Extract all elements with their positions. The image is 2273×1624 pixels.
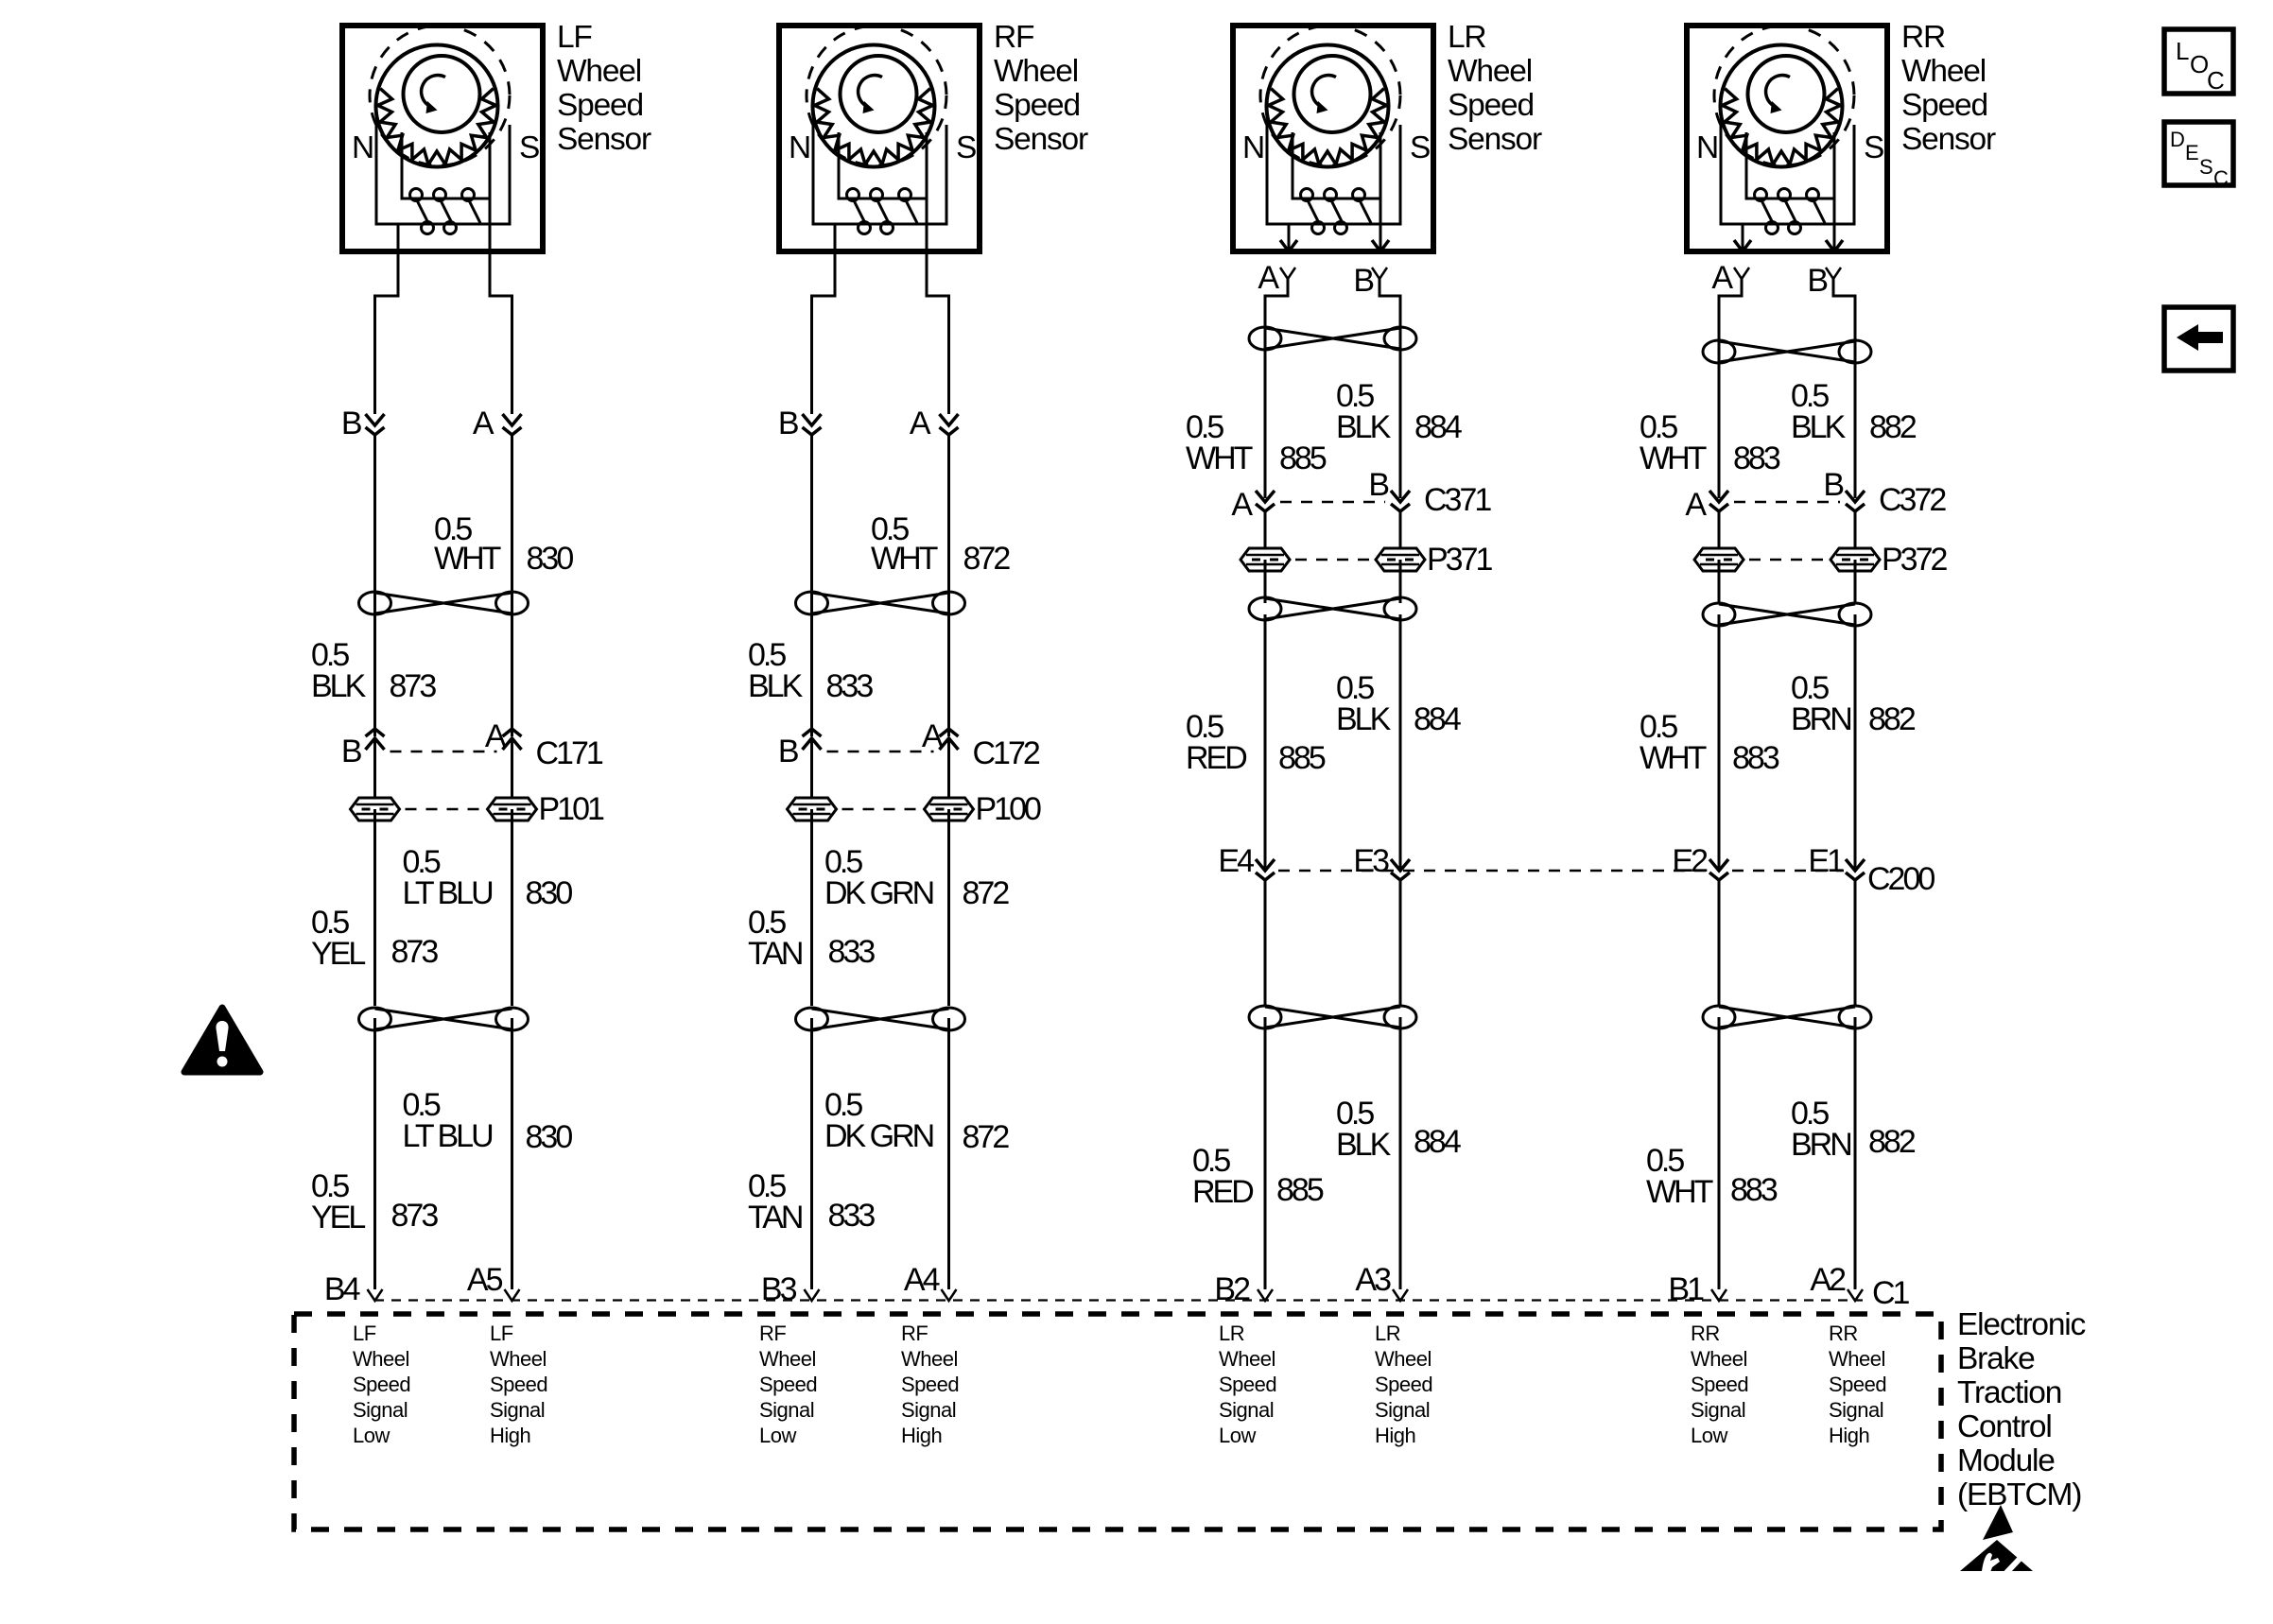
svg-text:Traction: Traction [1957, 1375, 2061, 1410]
label wire RR left mid: 0.5 WHT 883 [1640, 709, 1779, 776]
svg-text:884: 884 [1414, 409, 1462, 445]
wire RR right from sensor [1833, 279, 1855, 498]
svg-text:P101: P101 [539, 791, 604, 827]
terminal A of LR sensor [1258, 260, 1295, 296]
connector C172 [778, 718, 1040, 771]
wire LF high to module [511, 1018, 513, 1289]
wire RR left below C200 [1718, 880, 1721, 1006]
label wire LR low: 0.5 WHT 885 [1186, 409, 1327, 476]
svg-text:LT BLU: LT BLU [403, 875, 493, 911]
wire LR right below P371 [1399, 560, 1402, 603]
node LR Wheel Speed Signal Low [1219, 1322, 1276, 1447]
wire RR right below P372 [1854, 560, 1857, 603]
svg-text:S: S [956, 130, 976, 165]
svg-text:C172: C172 [973, 735, 1040, 771]
wire LR left below C371 [1264, 511, 1267, 548]
connector P100 [788, 791, 1041, 827]
svg-text:Signal: Signal [1375, 1398, 1430, 1422]
svg-text:A: A [473, 406, 495, 441]
label wire RF low lower: 0.5 TAN 833 [748, 1168, 875, 1235]
wire RR right below C372 [1854, 511, 1857, 548]
svg-text:RF: RF [901, 1322, 928, 1345]
connector C371 [1231, 467, 1491, 523]
label wire LF high: 0.5 WHT 830 [434, 511, 573, 577]
label wire LF high lower: 0.5 LT BLU 830 [403, 1087, 573, 1155]
svg-text:883: 883 [1733, 441, 1780, 476]
svg-text:LR: LR [1219, 1322, 1244, 1345]
svg-text:A: A [922, 718, 944, 754]
terminal B of RR sensor [1807, 263, 1841, 299]
terminal A of RF sensor [910, 406, 959, 441]
wire RR left from sensor [1719, 279, 1742, 498]
wire LR right from sensor [1379, 279, 1400, 498]
svg-text:A: A [910, 406, 931, 441]
svg-text:YEL: YEL [311, 936, 365, 972]
svg-text:B: B [778, 734, 798, 769]
twisted pair RR middle [1703, 603, 1871, 626]
svg-text:High: High [1375, 1424, 1415, 1447]
pin A5 of EBTCM connector C1 [467, 1262, 520, 1301]
svg-text:YEL: YEL [311, 1200, 365, 1235]
label wire LR right mid: 0.5 BLK 884 [1336, 670, 1461, 737]
svg-text:N: N [1696, 130, 1718, 165]
svg-text:C171: C171 [536, 735, 603, 771]
svg-text:WHT: WHT [1640, 441, 1707, 476]
wire RF signal high upper [947, 435, 950, 736]
svg-text:BLK: BLK [748, 668, 804, 704]
svg-text:BLK: BLK [1336, 409, 1392, 445]
pin B4 of EBTCM connector C1 [324, 1271, 383, 1307]
svg-text:Speed: Speed [759, 1373, 817, 1396]
svg-text:A: A [1258, 260, 1279, 296]
svg-text:873: 873 [391, 1198, 439, 1234]
pin B2 of EBTCM connector C1 [1214, 1271, 1273, 1307]
svg-text:S: S [2199, 155, 2212, 179]
svg-text:LT BLU: LT BLU [403, 1118, 493, 1154]
sensor LR Wheel Speed Sensor [1233, 26, 1433, 251]
connector C372 [1685, 467, 1946, 523]
label wire LR right lower: 0.5 BLK 884 [1336, 1096, 1461, 1163]
svg-text:RF: RF [759, 1322, 786, 1345]
wire LF signal high upper [511, 435, 513, 736]
wire RF high to module [947, 1018, 950, 1289]
twisted pair RF lower [796, 1008, 965, 1030]
svg-text:884: 884 [1414, 701, 1461, 737]
svg-text:A: A [485, 718, 507, 754]
svg-text:Speed: Speed [1829, 1373, 1886, 1396]
warning caution triangle [184, 1008, 260, 1072]
svg-text:E1: E1 [1808, 843, 1844, 879]
node LF Wheel Speed Signal High [490, 1322, 547, 1447]
ESD electrostatic discharge symbol [1960, 1505, 2039, 1577]
svg-text:LR: LR [1448, 20, 1485, 55]
svg-text:B2: B2 [1214, 1271, 1250, 1307]
svg-text:873: 873 [390, 668, 437, 704]
svg-text:RF: RF [994, 20, 1034, 55]
wire LR left to module [1264, 1017, 1267, 1289]
connector C200 terminal E3 [1353, 843, 1410, 880]
svg-text:DK GRN: DK GRN [824, 875, 933, 911]
svg-text:Brake: Brake [1957, 1341, 2035, 1376]
svg-text:885: 885 [1276, 1172, 1324, 1208]
wire LF high below P101 [511, 809, 513, 1006]
svg-text:WHT: WHT [1646, 1174, 1713, 1210]
connector C200 terminal E4 [1218, 843, 1275, 880]
pin A2 of EBTCM connector C1 [1810, 1262, 1863, 1301]
label wire LF low lower: 0.5 YEL 873 [311, 1168, 438, 1235]
svg-text:Sensor: Sensor [1448, 122, 1542, 157]
node RF Wheel Speed Signal High [901, 1322, 959, 1447]
svg-text:High: High [490, 1424, 530, 1447]
connector C200 terminal E1 [1808, 843, 1865, 880]
wire LR right below C371 [1399, 511, 1402, 548]
wire RF high below P100 [947, 809, 950, 1006]
svg-text:High: High [901, 1424, 942, 1447]
terminal B of RF sensor [778, 406, 822, 441]
wire LR left below P371 [1264, 560, 1267, 603]
svg-text:Wheel: Wheel [557, 54, 641, 89]
label Electronic Brake Traction Control Module (EBTCM) [1957, 1307, 2086, 1512]
svg-text:P371: P371 [1427, 542, 1492, 578]
svg-text:B: B [778, 406, 798, 441]
svg-text:TAN: TAN [748, 1200, 802, 1235]
svg-text:885: 885 [1278, 740, 1326, 776]
label RF Wheel Speed Sensor name [994, 20, 1088, 157]
svg-text:Module: Module [1957, 1443, 2055, 1478]
label wire LF low: 0.5 BLK 873 [311, 637, 436, 704]
terminal B of LF sensor [341, 406, 385, 441]
twisted pair LF upper [359, 592, 529, 614]
twisted pair RR upper [1703, 340, 1871, 363]
svg-text:RR: RR [1829, 1322, 1858, 1345]
label wire RF low: 0.5 BLK 833 [748, 637, 873, 704]
wire RR left to C200 [1718, 614, 1721, 869]
svg-text:Wheel: Wheel [1829, 1347, 1885, 1371]
wire RF left from sensor [812, 252, 836, 414]
wire RR right to C200 [1854, 614, 1857, 869]
terminal B of LR sensor [1353, 263, 1387, 299]
node RR Wheel Speed Signal Low [1691, 1322, 1748, 1447]
svg-text:Signal: Signal [1691, 1398, 1745, 1422]
legend DESC box [2164, 122, 2233, 190]
svg-text:Signal: Signal [901, 1398, 956, 1422]
sensor RF Wheel Speed Sensor [779, 26, 980, 255]
svg-text:High: High [1829, 1424, 1869, 1447]
svg-text:WHT: WHT [871, 541, 938, 577]
wire LF signal low upper [373, 435, 376, 736]
svg-text:Speed: Speed [901, 1373, 959, 1396]
twisted pair LF lower [359, 1008, 529, 1030]
label wire RF high lower: 0.5 DK GRN 872 [824, 1087, 1009, 1155]
svg-text:B: B [1807, 263, 1827, 299]
svg-text:882: 882 [1868, 701, 1916, 737]
svg-text:LF: LF [557, 20, 592, 55]
svg-text:L: L [2176, 37, 2189, 65]
svg-text:Speed: Speed [1219, 1373, 1276, 1396]
svg-text:B3: B3 [761, 1271, 797, 1307]
legend LOC box [2164, 29, 2233, 95]
wire LR right to C200 [1399, 614, 1402, 869]
label wire RF low mid: 0.5 TAN 833 [748, 905, 875, 972]
svg-text:B: B [1353, 263, 1373, 299]
svg-text:A5: A5 [467, 1262, 503, 1298]
svg-text:E3: E3 [1353, 843, 1389, 879]
svg-text:A2: A2 [1810, 1262, 1846, 1298]
svg-text:C200: C200 [1867, 861, 1935, 897]
svg-text:RED: RED [1186, 740, 1246, 776]
svg-text:885: 885 [1279, 441, 1327, 476]
svg-text:A4: A4 [904, 1262, 940, 1298]
svg-text:Low: Low [759, 1424, 796, 1447]
svg-text:Speed: Speed [1691, 1373, 1748, 1396]
wire RR left below C372 [1718, 511, 1721, 548]
wire RF high below C172 [947, 738, 950, 798]
wire LR left to C200 [1264, 614, 1267, 869]
svg-text:BLK: BLK [1336, 1127, 1392, 1163]
svg-text:BRN: BRN [1791, 1127, 1850, 1163]
svg-text:Speed: Speed [490, 1373, 547, 1396]
svg-text:WHT: WHT [1186, 441, 1253, 476]
svg-text:C371: C371 [1424, 482, 1491, 518]
wire LR left below C200 [1264, 880, 1267, 1006]
label wire LR high: 0.5 BLK 884 [1336, 378, 1462, 445]
svg-text:Wheel: Wheel [994, 54, 1078, 89]
svg-text:P100: P100 [976, 791, 1041, 827]
svg-text:Low: Low [1691, 1424, 1727, 1447]
wire LF left from sensor [375, 252, 399, 414]
node RR Wheel Speed Signal High [1829, 1322, 1886, 1447]
module EBTCM dashed box [294, 1314, 1941, 1529]
svg-text:E2: E2 [1672, 843, 1708, 879]
wire LR left from sensor [1265, 279, 1288, 498]
svg-text:883: 883 [1732, 740, 1779, 776]
svg-text:Sensor: Sensor [557, 122, 651, 157]
svg-text:(EBTCM): (EBTCM) [1957, 1477, 2081, 1512]
svg-text:C: C [2207, 66, 2225, 95]
svg-text:RED: RED [1192, 1174, 1253, 1210]
wire LF low below C171 [373, 738, 376, 798]
svg-text:872: 872 [963, 875, 1010, 911]
svg-text:Speed: Speed [557, 88, 643, 123]
label wire LR left lower: 0.5 RED 885 [1192, 1143, 1324, 1210]
svg-text:RR: RR [1901, 20, 1945, 55]
svg-text:Signal: Signal [353, 1398, 408, 1422]
twisted pair RR lower [1703, 1006, 1871, 1028]
svg-text:Wheel: Wheel [490, 1347, 547, 1371]
node LR Wheel Speed Signal High [1375, 1322, 1432, 1447]
svg-text:B: B [1368, 467, 1388, 503]
svg-text:Speed: Speed [1375, 1373, 1432, 1396]
svg-text:882: 882 [1868, 1124, 1916, 1160]
wire LR right below C200 [1399, 880, 1402, 1006]
svg-text:872: 872 [963, 541, 1011, 577]
svg-text:S: S [519, 130, 539, 165]
svg-text:833: 833 [828, 1198, 876, 1234]
svg-text:830: 830 [527, 541, 574, 577]
wire LF right from sensor [490, 252, 512, 414]
svg-text:TAN: TAN [748, 936, 802, 972]
connector C200 terminal E2 [1672, 843, 1728, 880]
wire RF low below P100 [810, 809, 813, 1006]
svg-text:A3: A3 [1355, 1262, 1391, 1298]
label wire LF high mid: 0.5 LT BLU 830 [403, 844, 573, 911]
svg-text:B: B [1823, 467, 1843, 503]
label wire RR right mid: 0.5 BRN 882 [1791, 670, 1916, 737]
label wire RR high: 0.5 BLK 882 [1791, 378, 1917, 445]
wire RR right to module [1854, 1017, 1857, 1289]
wire LF high below C171 [511, 738, 513, 798]
svg-text:BRN: BRN [1791, 701, 1850, 737]
svg-text:D: D [2170, 128, 2184, 151]
svg-text:Wheel: Wheel [1219, 1347, 1275, 1371]
svg-text:P372: P372 [1882, 542, 1947, 578]
sensor LF Wheel Speed Sensor [342, 26, 543, 255]
svg-text:C372: C372 [1879, 482, 1946, 518]
svg-text:872: 872 [963, 1119, 1010, 1155]
terminal A of RR sensor [1711, 260, 1749, 296]
label LF Wheel Speed Sensor name [557, 20, 651, 157]
svg-text:B: B [341, 734, 361, 769]
legend back-arrow box [2164, 307, 2233, 371]
wire LR right to module [1399, 1017, 1402, 1289]
terminal A of LF sensor [473, 406, 522, 441]
svg-text:BLK: BLK [1791, 409, 1847, 445]
svg-text:E4: E4 [1218, 843, 1254, 879]
svg-text:Wheel: Wheel [759, 1347, 816, 1371]
svg-text:830: 830 [526, 875, 573, 911]
twisted pair LR middle [1249, 597, 1416, 620]
connector P101 [351, 791, 604, 827]
svg-text:Control: Control [1957, 1409, 2052, 1444]
svg-text:884: 884 [1414, 1124, 1461, 1160]
wire RR left to module [1718, 1017, 1721, 1289]
svg-text:BLK: BLK [311, 668, 367, 704]
node LF Wheel Speed Signal Low [353, 1322, 410, 1447]
svg-text:833: 833 [828, 934, 876, 970]
svg-text:N: N [1242, 130, 1264, 165]
wire RF right from sensor [927, 252, 949, 414]
svg-text:A: A [1685, 487, 1707, 523]
svg-text:883: 883 [1730, 1172, 1778, 1208]
svg-text:Wheel: Wheel [1375, 1347, 1431, 1371]
connector C200 dashed line and label [1278, 861, 1935, 897]
svg-text:B4: B4 [324, 1271, 360, 1307]
svg-text:B1: B1 [1668, 1271, 1704, 1307]
wire RF low to module [810, 1018, 813, 1289]
svg-text:C: C [2213, 166, 2229, 190]
label wire LF low mid: 0.5 YEL 873 [311, 905, 438, 972]
svg-text:N: N [789, 130, 810, 165]
svg-text:Wheel: Wheel [353, 1347, 409, 1371]
wire RF signal low upper [810, 435, 813, 736]
svg-text:A: A [1231, 487, 1253, 523]
connector C1 dashed line and label [374, 1275, 1910, 1311]
connector C171 [341, 718, 603, 771]
svg-text:Wheel: Wheel [1901, 54, 1986, 89]
connector P371 [1241, 542, 1492, 578]
node RF Wheel Speed Signal Low [759, 1322, 817, 1447]
svg-text:Speed: Speed [994, 88, 1080, 123]
svg-text:Speed: Speed [1448, 88, 1534, 123]
sensor RR Wheel Speed Sensor [1687, 26, 1887, 251]
svg-text:C1: C1 [1872, 1275, 1910, 1311]
label wire RR right lower: 0.5 BRN 882 [1791, 1096, 1916, 1163]
svg-text:RR: RR [1691, 1322, 1720, 1345]
svg-text:830: 830 [526, 1119, 573, 1155]
label wire RR left lower: 0.5 WHT 883 [1646, 1143, 1778, 1210]
svg-text:Sensor: Sensor [1901, 122, 1996, 157]
svg-text:S: S [1410, 130, 1430, 165]
label RR Wheel Speed Sensor name [1901, 20, 1996, 157]
svg-text:873: 873 [391, 934, 439, 970]
svg-text:LR: LR [1375, 1322, 1400, 1345]
svg-text:Signal: Signal [490, 1398, 545, 1422]
pin A4 of EBTCM connector C1 [904, 1262, 957, 1301]
label wire RF high: 0.5 WHT 872 [871, 511, 1010, 577]
label LR Wheel Speed Sensor name [1448, 20, 1542, 157]
wire RR right below C200 [1854, 880, 1857, 1006]
twisted pair RF upper [796, 592, 965, 614]
pin B3 of EBTCM connector C1 [761, 1271, 820, 1307]
svg-text:Sensor: Sensor [994, 122, 1088, 157]
wire LF low to module [373, 1018, 376, 1289]
label wire RR low: 0.5 WHT 883 [1640, 409, 1780, 476]
svg-text:Wheel: Wheel [901, 1347, 958, 1371]
svg-text:Signal: Signal [1829, 1398, 1883, 1422]
svg-text:S: S [1864, 130, 1883, 165]
label wire LR left mid: 0.5 RED 885 [1186, 709, 1326, 776]
svg-text:Wheel: Wheel [1448, 54, 1532, 89]
svg-text:LF: LF [490, 1322, 513, 1345]
svg-text:BLK: BLK [1336, 701, 1392, 737]
wire RF low below C172 [810, 738, 813, 798]
svg-text:LF: LF [353, 1322, 376, 1345]
svg-text:Speed: Speed [353, 1373, 410, 1396]
svg-text:Electronic: Electronic [1957, 1307, 2086, 1342]
svg-text:WHT: WHT [434, 541, 501, 577]
svg-text:Speed: Speed [1901, 88, 1987, 123]
connector P372 [1694, 542, 1947, 578]
svg-text:Wheel: Wheel [1691, 1347, 1747, 1371]
svg-text:Signal: Signal [759, 1398, 814, 1422]
svg-text:B: B [341, 406, 361, 441]
svg-text:Signal: Signal [1219, 1398, 1274, 1422]
twisted pair LR upper [1249, 327, 1416, 350]
svg-text:882: 882 [1869, 409, 1917, 445]
svg-text:Low: Low [353, 1424, 390, 1447]
svg-text:DK GRN: DK GRN [824, 1118, 933, 1154]
wire LF low below P101 [373, 809, 376, 1006]
svg-text:833: 833 [826, 668, 874, 704]
svg-text:WHT: WHT [1640, 740, 1707, 776]
svg-text:E: E [2185, 141, 2198, 164]
svg-text:A: A [1711, 260, 1733, 296]
label wire RF high mid: 0.5 DK GRN 872 [824, 844, 1009, 911]
pin B1 of EBTCM connector C1 [1668, 1271, 1726, 1307]
twisted pair LR lower [1249, 1006, 1416, 1028]
wire RR left below P372 [1718, 560, 1721, 603]
pin A3 of EBTCM connector C1 [1355, 1262, 1408, 1301]
svg-text:Low: Low [1219, 1424, 1256, 1447]
svg-text:N: N [352, 130, 373, 165]
